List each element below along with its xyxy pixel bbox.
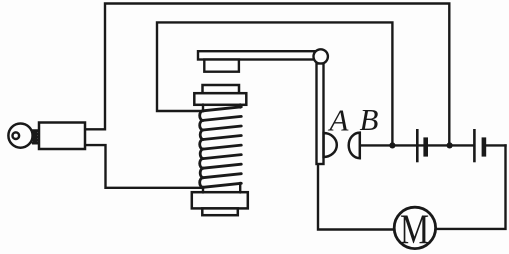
svg-text:B: B bbox=[360, 102, 379, 137]
svg-text:A: A bbox=[328, 102, 350, 137]
svg-text:M: M bbox=[400, 207, 429, 254]
